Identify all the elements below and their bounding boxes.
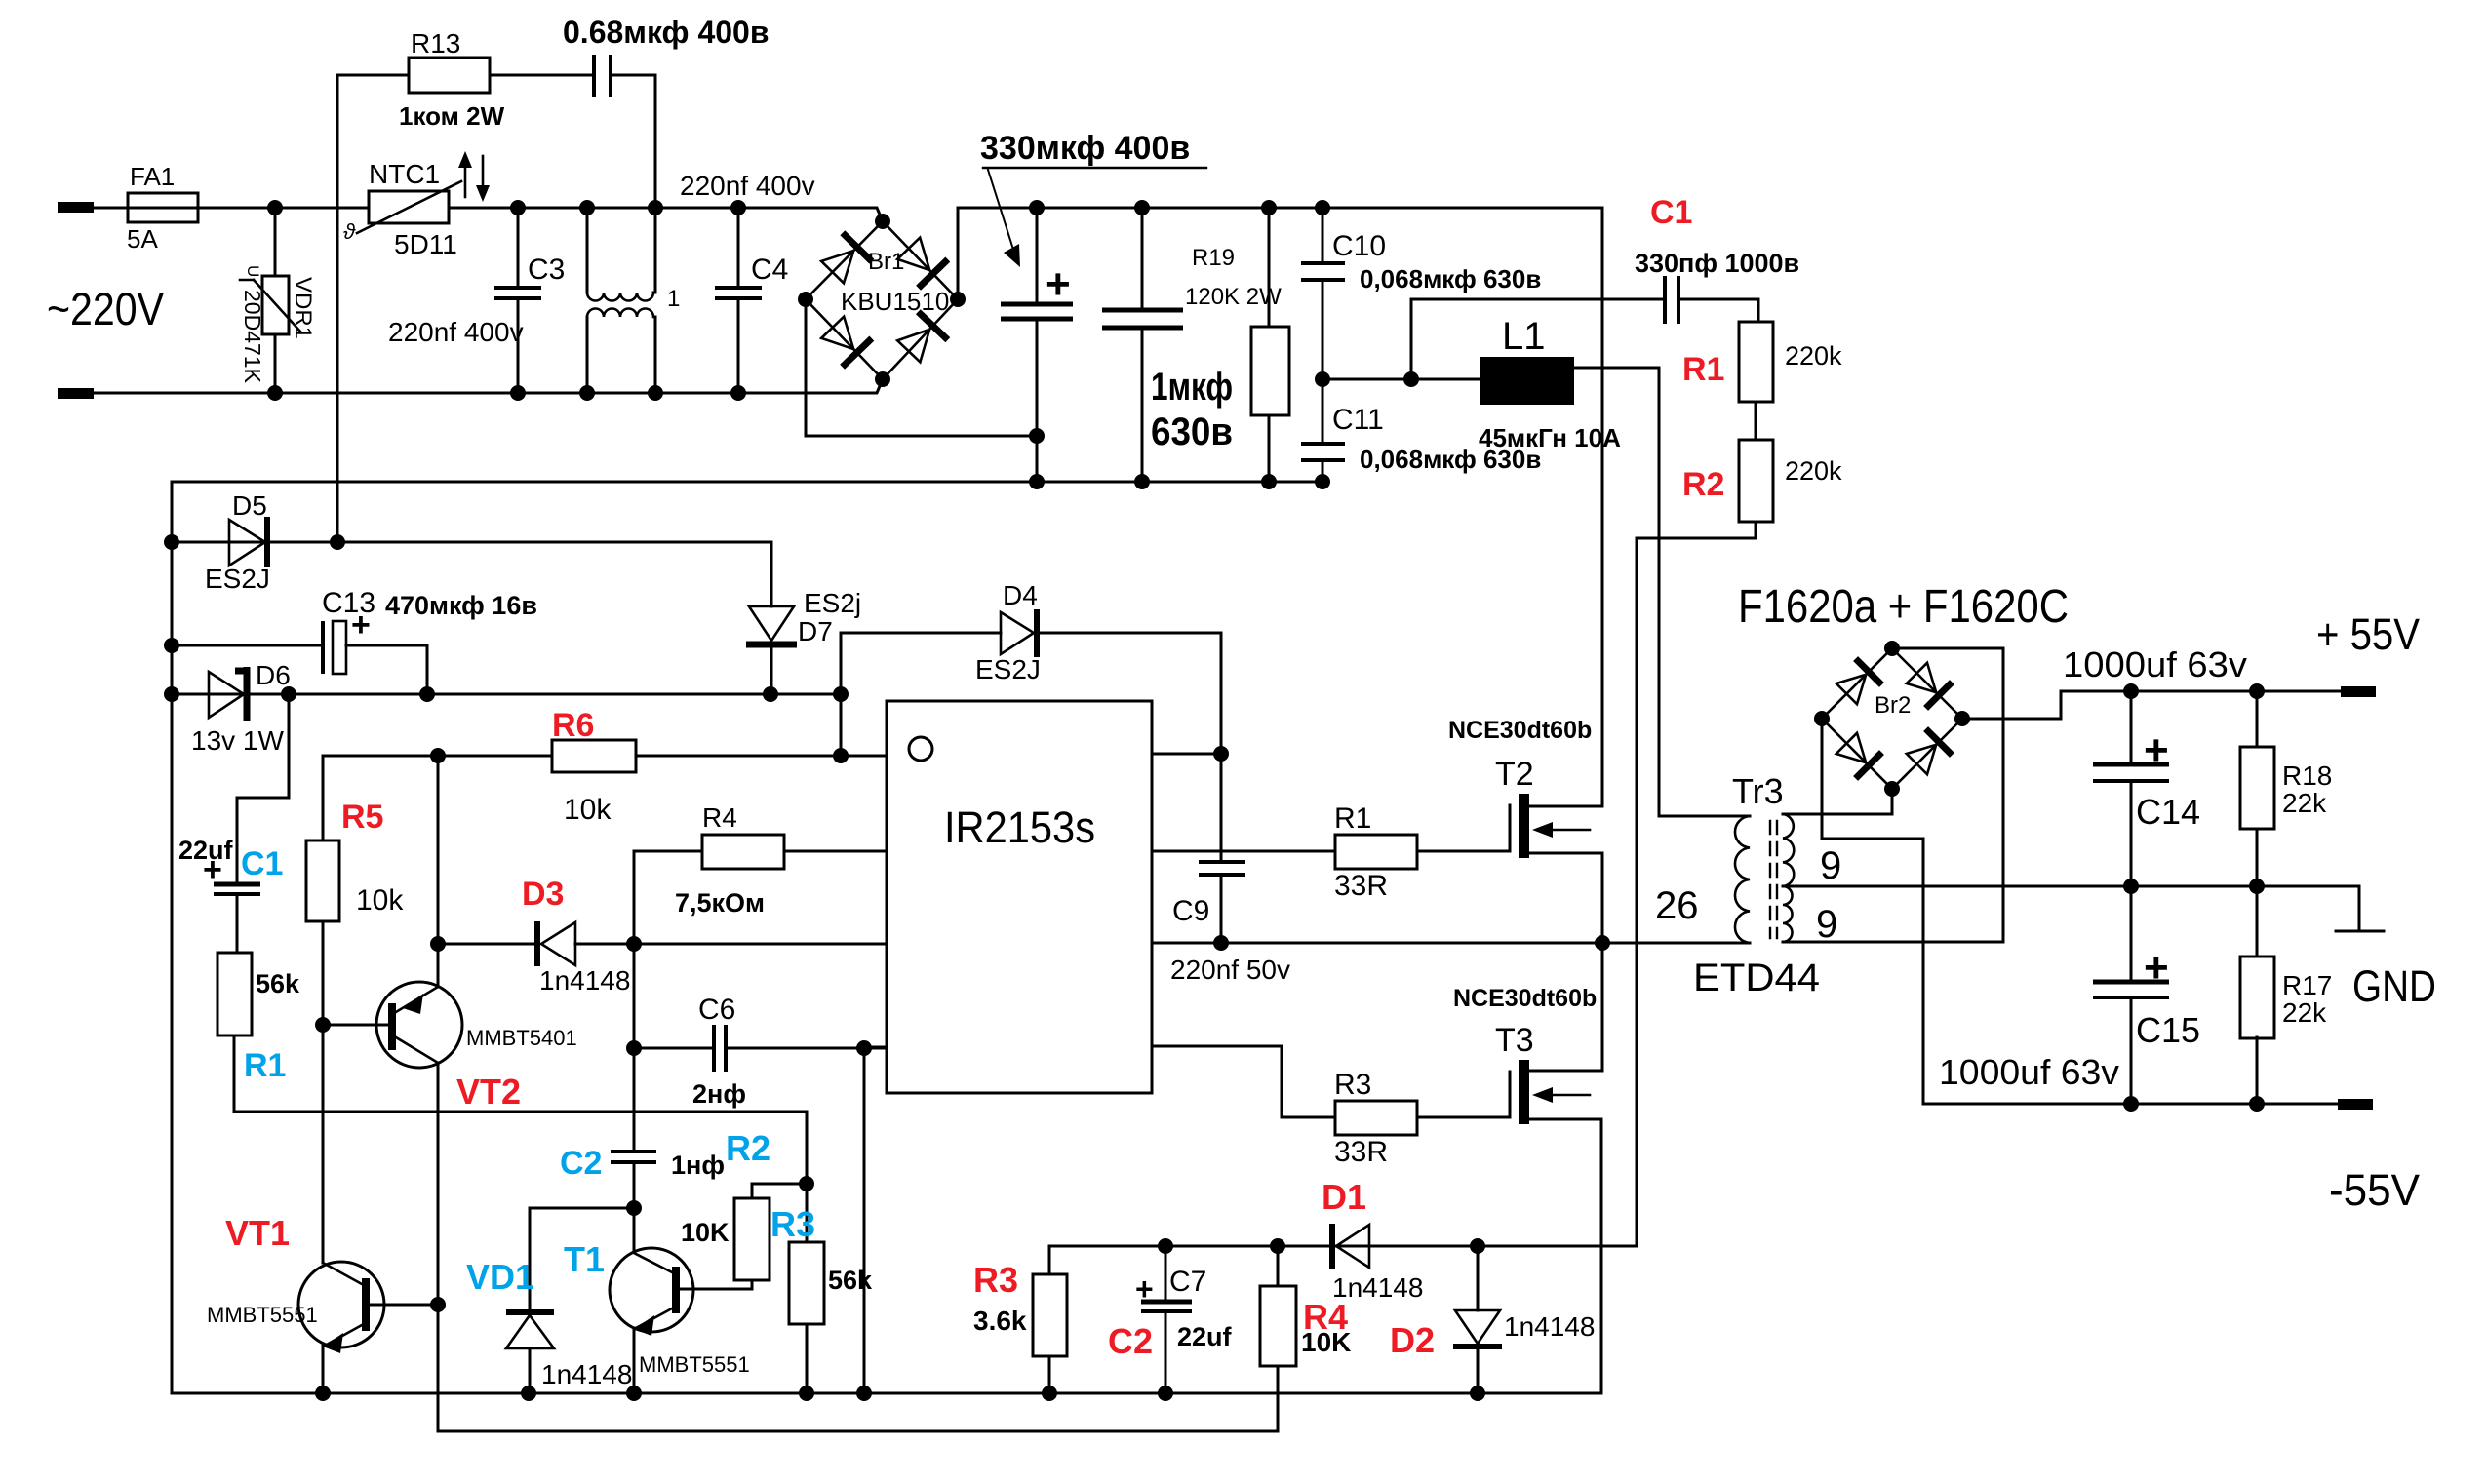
- svg-text:C14: C14: [2136, 792, 2200, 832]
- capacitor C2 1nf: [560, 1145, 725, 1251]
- svg-text:1n4148: 1n4148: [541, 1359, 632, 1389]
- svg-text:26: 26: [1655, 884, 1699, 927]
- AC input terminal top: [58, 202, 94, 213]
- diode D7 ES2j: [746, 542, 861, 694]
- capacitor C7 22uf C2: [1108, 1238, 1233, 1401]
- capacitor C1 22uf: [178, 694, 289, 953]
- annotation 330mkf 400v with arrow: [980, 130, 1206, 267]
- resistor R3 56k: [770, 1184, 873, 1393]
- capacitor C10: [1301, 200, 1541, 379]
- svg-text:56k: 56k: [828, 1266, 873, 1295]
- svg-text:220nf 50v: 220nf 50v: [1170, 955, 1290, 985]
- svg-text:R17: R17: [2282, 970, 2332, 1000]
- svg-text:NCE30dt60b: NCE30dt60b: [1448, 717, 1592, 744]
- varistor VDR1: [240, 208, 316, 393]
- svg-text:R2: R2: [726, 1128, 770, 1168]
- resistor R2 10K: [681, 1128, 807, 1289]
- svg-text:470мкф 16в: 470мкф 16в: [385, 591, 537, 620]
- wire L1 output to primary: [1659, 368, 1750, 816]
- svg-text:VDR1: VDR1: [290, 277, 316, 339]
- resistor R18 22k: [2240, 683, 2332, 894]
- capacitor 1mkf 630v: [1102, 200, 1233, 489]
- svg-text:R4: R4: [702, 802, 737, 833]
- capacitor C13 470mkf 16v: [322, 587, 537, 694]
- svg-text:0.68мкф 400в: 0.68мкф 400в: [563, 15, 770, 50]
- svg-text:+: +: [2144, 944, 2169, 992]
- svg-text:R5: R5: [341, 799, 383, 836]
- svg-text:L1: L1: [1502, 315, 1546, 358]
- svg-text:F1620a + F1620C: F1620a + F1620C: [1738, 581, 2069, 633]
- svg-text:1нф: 1нф: [671, 1151, 725, 1180]
- svg-text:R19: R19: [1192, 245, 1235, 271]
- svg-text:D2: D2: [1390, 1320, 1435, 1360]
- wire AC top rail: [94, 208, 883, 221]
- transformer Tr3 core: [1770, 821, 1777, 938]
- svg-text:VT1: VT1: [225, 1213, 290, 1253]
- svg-text:C6: C6: [698, 994, 735, 1026]
- wire secondary top to Br2 bottom: [1891, 789, 1894, 814]
- svg-text:GND: GND: [2352, 961, 2436, 1011]
- wire D5 branch: [172, 541, 771, 544]
- bridge rectifier Br1 KBU1510: [798, 214, 966, 387]
- svg-text:R3: R3: [973, 1260, 1018, 1300]
- diode D3 1n4148: [430, 876, 887, 996]
- svg-text:R2: R2: [1682, 466, 1724, 503]
- wire DC- bus: [172, 481, 1322, 484]
- svg-text:U: U: [244, 265, 262, 277]
- wire VT2 collector low rail: [438, 1305, 1278, 1431]
- svg-text:33R: 33R: [1334, 870, 1388, 902]
- svg-text:ϑ: ϑ: [343, 219, 356, 244]
- wire sense divider down leg: [1636, 538, 1638, 1246]
- wire Vcc pin / R6 line: [323, 755, 552, 758]
- svg-text:C11: C11: [1332, 404, 1384, 436]
- svg-text:7,5кОм: 7,5кОм: [675, 888, 765, 918]
- wire secondary bottom to Br2 top: [1892, 648, 2003, 942]
- diode D4 ES2J: [841, 580, 1221, 684]
- svg-text:ES2J: ES2J: [975, 654, 1041, 684]
- capacitor C9 220nf 50v: [1170, 862, 1290, 985]
- output terminal +55V: [2316, 609, 2420, 697]
- svg-text:ES2j: ES2j: [804, 588, 861, 618]
- svg-text:Tr3: Tr3: [1732, 771, 1784, 811]
- wire DC+ drop to T2 drain: [1601, 208, 1604, 806]
- wire -55V rail: [1923, 1103, 2341, 1106]
- svg-text:1n4148: 1n4148: [1504, 1311, 1595, 1342]
- wire VB pin: [1152, 753, 1221, 756]
- transformer Tr3 secondary 9+9 turns: [1783, 814, 2359, 946]
- svg-text:KBU1510: KBU1510: [841, 287, 949, 316]
- capacitor C11: [1301, 371, 1541, 489]
- resistor R1 220k: [1682, 299, 1842, 440]
- wire COM ground leg: [856, 1040, 872, 1056]
- arrow down by NTC1: [476, 156, 490, 202]
- svg-text:R6: R6: [552, 707, 594, 744]
- wire VB bootstrap: [1220, 633, 1223, 862]
- node AC N at VDR1: [267, 385, 283, 401]
- svg-text:VT2: VT2: [456, 1072, 521, 1112]
- svg-text:C1: C1: [1650, 194, 1692, 231]
- transistor T3 NCE30dt60b: [1453, 943, 1602, 1393]
- svg-text:220nf 400v: 220nf 400v: [680, 171, 815, 201]
- svg-text:2нф: 2нф: [692, 1079, 746, 1109]
- svg-text:R3: R3: [1334, 1069, 1371, 1101]
- resistor R3 33R: [1334, 1069, 1510, 1168]
- wire Br2 to +55V rail: [1962, 691, 2341, 719]
- svg-text:R18: R18: [2282, 761, 2332, 791]
- svg-text:C9: C9: [1172, 895, 1209, 927]
- svg-text:T3: T3: [1495, 1022, 1534, 1059]
- svg-text:D4: D4: [1003, 580, 1038, 610]
- svg-text:C10: C10: [1332, 230, 1386, 262]
- wire dropper branch vertical: [336, 75, 339, 542]
- svg-text:9: 9: [1816, 903, 1837, 946]
- svg-text:1000uf 63v: 1000uf 63v: [2063, 644, 2247, 684]
- svg-text:R1: R1: [1334, 802, 1371, 835]
- svg-text:45мкГн 10A: 45мкГн 10A: [1479, 423, 1621, 452]
- svg-text:C4: C4: [751, 254, 788, 286]
- svg-text:330мкф 400в: 330мкф 400в: [980, 130, 1190, 167]
- transistor T2 NCE30dt60b: [1448, 717, 1602, 943]
- transistor VT2 MMBT5401: [315, 944, 577, 1305]
- output terminal -55V: [2329, 1099, 2420, 1215]
- svg-text:1: 1: [667, 286, 680, 312]
- resistor R1 56k: [217, 953, 300, 1112]
- svg-text:T2: T2: [1495, 756, 1534, 793]
- resistor R6 10k: [552, 707, 636, 826]
- diode D1 1n4148: [1322, 1177, 1423, 1303]
- svg-text:13v 1W: 13v 1W: [191, 725, 284, 756]
- wire overcurrent sense line: [1049, 1245, 1637, 1248]
- svg-text:IR2153s: IR2153s: [944, 802, 1095, 852]
- wire AC bottom rail: [94, 379, 883, 393]
- svg-text:ES2J: ES2J: [205, 564, 270, 594]
- svg-text:D7: D7: [798, 616, 833, 646]
- wire VS line: [1152, 942, 1750, 945]
- node L1 input: [1403, 371, 1419, 387]
- svg-text:MMBT5551: MMBT5551: [639, 1352, 750, 1377]
- svg-text:10k: 10k: [356, 884, 404, 917]
- svg-text:220k: 220k: [1785, 456, 1842, 486]
- capacitor C14 1000uf 63v: [2063, 644, 2247, 894]
- ground symbol GND: [2336, 886, 2436, 1011]
- node DC- cap: [1029, 428, 1045, 444]
- svg-text:ETD44: ETD44: [1693, 957, 1820, 999]
- svg-text:+: +: [2144, 726, 2169, 774]
- transformer Tr3 primary 26 turns: [1655, 771, 1820, 999]
- svg-text:1n4148: 1n4148: [1332, 1272, 1423, 1303]
- svg-text:5D11: 5D11: [394, 229, 457, 259]
- svg-text:22uf: 22uf: [1177, 1322, 1233, 1351]
- zener D6 13v 1W: [191, 660, 291, 756]
- inductor L1 45uH: [1411, 315, 1659, 452]
- svg-text:Br1: Br1: [868, 249, 904, 275]
- wire C10/C11 node to L1: [1322, 378, 1411, 381]
- svg-text:D3: D3: [522, 876, 564, 913]
- svg-text:1000uf 63v: 1000uf 63v: [1939, 1052, 2119, 1092]
- AC input terminal bottom: [58, 388, 94, 399]
- capacitor C3: [388, 200, 565, 401]
- svg-text:630в: 630в: [1151, 410, 1233, 453]
- svg-text:10K: 10K: [681, 1218, 730, 1247]
- svg-text:+: +: [1046, 260, 1071, 308]
- svg-text:R13: R13: [411, 28, 460, 59]
- common mode choke winding 1: [579, 200, 680, 312]
- svg-text:120K 2W: 120K 2W: [1185, 284, 1282, 310]
- svg-text:D6: D6: [256, 660, 291, 690]
- svg-text:D5: D5: [232, 490, 267, 521]
- wire DC+ rail: [958, 208, 1602, 299]
- wire snubber tap to C1: [1411, 299, 1665, 379]
- resistor R2 220k: [1637, 440, 1842, 538]
- svg-text:NCE30dt60b: NCE30dt60b: [1453, 985, 1597, 1012]
- thermistor NTC1: [343, 159, 461, 259]
- svg-text:10k: 10k: [564, 794, 612, 826]
- svg-text:VD1: VD1: [466, 1257, 534, 1297]
- svg-text:9: 9: [1820, 844, 1841, 887]
- resistor R5 10k: [306, 756, 404, 1025]
- wire C13 branch: [172, 644, 323, 647]
- svg-text:1n4148: 1n4148: [539, 965, 630, 996]
- svg-text:220nf 400v: 220nf 400v: [388, 317, 524, 347]
- wire LO gate line: [1152, 1046, 1335, 1117]
- capacitor 330uF 400V: [1001, 200, 1073, 489]
- svg-text:0,068мкф 630в: 0,068мкф 630в: [1360, 264, 1541, 293]
- capacitor 0.68mkf 400v: [490, 15, 770, 97]
- wire dropper right leg: [654, 75, 657, 208]
- svg-text:20D471K: 20D471K: [240, 290, 265, 384]
- capacitor C1 330pf 1000v: [1635, 194, 1799, 324]
- svg-text:1ком 2W: 1ком 2W: [399, 101, 505, 131]
- wire VT2 emitter up: [437, 756, 440, 944]
- svg-text:C1: C1: [241, 845, 283, 882]
- svg-text:22k: 22k: [2282, 997, 2327, 1028]
- wire HO gate line: [1152, 850, 1335, 853]
- capacitor C15 1000uf 63v: [1939, 886, 2200, 1112]
- svg-text:C2: C2: [560, 1145, 602, 1182]
- svg-text:10K: 10K: [1301, 1327, 1351, 1357]
- wire CT branch down: [633, 944, 636, 1152]
- svg-text:-55V: -55V: [2329, 1165, 2420, 1215]
- wire Vcc to D4 and VB: [840, 633, 843, 756]
- capacitor C4: [715, 200, 788, 401]
- svg-text:330пф 1000в: 330пф 1000в: [1635, 249, 1799, 278]
- wire Vcc supply rail left: [171, 482, 174, 1393]
- svg-text:33R: 33R: [1334, 1136, 1388, 1168]
- svg-text:D1: D1: [1322, 1177, 1366, 1217]
- transistor VT1 MMBT5551: [207, 1025, 446, 1393]
- svg-text:+: +: [1135, 1271, 1154, 1307]
- resistor R4 7.5kOm: [634, 802, 887, 944]
- diode VD1 1n4148: [466, 1208, 634, 1393]
- svg-text:R1: R1: [1682, 351, 1724, 388]
- wire R1 bottom to R2R3 node: [234, 1112, 807, 1184]
- svg-text:FA1: FA1: [130, 162, 175, 191]
- svg-text:1мкф: 1мкф: [1151, 366, 1233, 409]
- common mode choke winding 2: [579, 309, 663, 402]
- resistor R4 10K: [1260, 1238, 1351, 1366]
- svg-text:+ 55V: + 55V: [2316, 609, 2420, 659]
- svg-text:Br2: Br2: [1875, 692, 1911, 719]
- resistor R1 33R: [1334, 802, 1510, 902]
- svg-text:MMBT5551: MMBT5551: [207, 1303, 318, 1327]
- node AC L after fuse: [267, 200, 283, 215]
- svg-text:220k: 220k: [1785, 341, 1842, 371]
- svg-text:56k: 56k: [256, 969, 300, 998]
- wire DC- from bridge: [806, 299, 1037, 436]
- svg-text:22k: 22k: [2282, 788, 2327, 818]
- svg-text:5A: 5A: [127, 224, 158, 254]
- wire Br2 to -55V rail: [1822, 719, 1923, 1104]
- node dropper to rail: [648, 200, 663, 215]
- svg-text:NTC1: NTC1: [369, 159, 440, 189]
- wire Vcc node line: [172, 693, 841, 696]
- svg-text:C3: C3: [528, 254, 565, 286]
- resistor R3 3.6k: [973, 1246, 1067, 1401]
- svg-text:T1: T1: [564, 1239, 605, 1279]
- diode D5 ES2J: [205, 490, 270, 594]
- resistor R19 120K 2W: [1185, 200, 1289, 489]
- svg-text:C13: C13: [322, 587, 375, 619]
- svg-text:~220V: ~220V: [47, 283, 165, 334]
- IC U1 IR2153s: [887, 701, 1152, 1093]
- resistor R13 1kom 2W: [337, 28, 505, 131]
- svg-text:C15: C15: [2136, 1010, 2200, 1050]
- svg-text:C2: C2: [1108, 1321, 1153, 1361]
- svg-text:3.6k: 3.6k: [973, 1306, 1027, 1336]
- transistor T1 MMBT5551: [564, 1239, 752, 1393]
- resistor R17 22k: [2240, 886, 2332, 1112]
- svg-text:R3: R3: [770, 1204, 815, 1244]
- wire ground rail bottom: [172, 1392, 1601, 1395]
- svg-text:+: +: [203, 851, 222, 888]
- svg-text:R1: R1: [244, 1047, 286, 1084]
- bridge rectifier Br2: [1814, 641, 1970, 797]
- fuse FA1: [127, 162, 198, 254]
- capacitor C6 2nf: [634, 994, 887, 1109]
- arrow up by NTC1: [458, 151, 472, 197]
- diode D2 1n4148: [1390, 1238, 1595, 1401]
- wire COM pin: [864, 1046, 887, 1049]
- svg-text:MMBT5401: MMBT5401: [466, 1026, 577, 1050]
- svg-text:C7: C7: [1169, 1266, 1206, 1298]
